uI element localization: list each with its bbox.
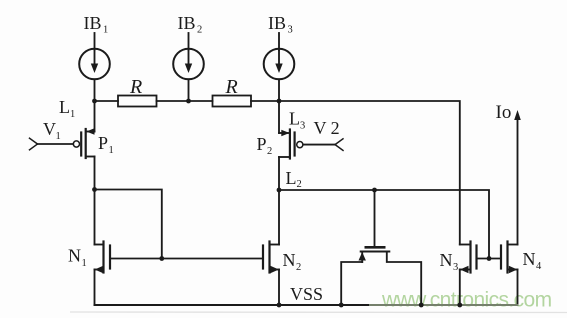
svg-text:R: R [225, 76, 238, 98]
svg-text:1: 1 [109, 145, 114, 156]
output arrow Io [514, 110, 521, 120]
transistor P1 [73, 128, 94, 158]
transistor N1 [95, 242, 111, 274]
wire N4 source to VSS rail [517, 270, 519, 306]
node N2 source on rail [277, 303, 282, 308]
svg-text:1: 1 [70, 109, 75, 120]
svg-text:V: V [43, 119, 56, 139]
label IB3 [268, 13, 293, 36]
wire N1 source to VSS rail [94, 270, 96, 306]
svg-text:Io: Io [496, 102, 512, 123]
label L1 [59, 97, 75, 120]
wire N4 drain to Io [517, 119, 519, 245]
label VSS [290, 284, 323, 304]
svg-text:IB: IB [84, 13, 102, 33]
transistor P2 [279, 130, 303, 159]
label L2 [286, 168, 302, 190]
wire N1 N2 common gate line [110, 258, 263, 260]
node N3 N4 gate junction [487, 256, 492, 261]
svg-text:3: 3 [288, 25, 293, 36]
svg-text:IB: IB [178, 13, 196, 33]
wire R2 to L3 [251, 100, 279, 102]
wire VSS rail right (under watermark) [370, 304, 518, 306]
wire N2 source to VSS rail [278, 270, 280, 306]
svg-text:L: L [289, 109, 300, 129]
input terminal V1 [30, 138, 74, 150]
node M5 right lead on rail [419, 303, 424, 308]
label R1 value [129, 76, 142, 98]
label N2 [283, 250, 302, 273]
label N1 [68, 246, 87, 270]
label IB2 [178, 13, 203, 36]
svg-text:VSS: VSS [290, 284, 323, 304]
wire L3 to N3 drain (top right run) [279, 101, 460, 245]
svg-text:1: 1 [82, 258, 87, 269]
wire N3 source to VSS rail [459, 270, 461, 306]
transistor M5 (unlabeled, rotated) [341, 190, 421, 305]
svg-text:1: 1 [103, 25, 108, 36]
svg-text:4: 4 [536, 261, 542, 272]
node L1 [92, 99, 97, 104]
wire P1 drain down to N1 drain [94, 157, 96, 245]
label Io [496, 102, 512, 123]
wire R1 to mid node [157, 100, 213, 102]
wire N3 N4 common gate line [477, 258, 502, 260]
svg-text:N: N [68, 246, 81, 266]
svg-text:3: 3 [300, 121, 305, 132]
label R2 value [225, 76, 238, 98]
wire gate branch to N1/N2 gate line [95, 190, 162, 259]
label V2 [314, 118, 340, 138]
current source IB2 [173, 33, 204, 101]
label N4 [523, 249, 543, 272]
svg-text:P: P [257, 134, 267, 154]
label IB1 [84, 13, 109, 36]
node gate line junction [159, 256, 164, 261]
scan artifact line [70, 311, 567, 314]
svg-text:2: 2 [197, 25, 202, 36]
label L3 [289, 109, 305, 132]
transistor N2 [263, 242, 279, 274]
svg-text:L: L [59, 97, 70, 117]
svg-text:V 2: V 2 [314, 118, 340, 138]
wire VSS rail [95, 304, 371, 306]
wire P2 drain down through L2 to N2 drain [278, 157, 280, 245]
label N3 [440, 250, 459, 273]
label V1 [43, 119, 61, 142]
transistor N4 [501, 242, 518, 274]
svg-text:IB: IB [268, 13, 286, 33]
label P2 [257, 134, 273, 157]
svg-text:2: 2 [296, 262, 301, 273]
svg-text:2: 2 [267, 146, 272, 157]
node L3 [277, 99, 282, 104]
svg-text:L: L [286, 168, 297, 188]
resistor R2 [213, 96, 252, 107]
node L2 [277, 188, 282, 193]
label P1 [98, 133, 114, 156]
node mid junction [186, 99, 191, 104]
current source IB3 [264, 33, 295, 101]
node M5 left lead on rail [339, 303, 344, 308]
resistor R1 [118, 96, 157, 107]
svg-text:N: N [283, 250, 296, 270]
node N3 source on rail [457, 303, 462, 308]
wire L1 down to P1 source [94, 101, 96, 132]
node P1 drain / gate branch [92, 187, 97, 192]
current source IB1 [79, 33, 110, 101]
svg-text:3: 3 [453, 262, 458, 273]
svg-text:N: N [523, 249, 536, 269]
svg-text:N: N [440, 250, 453, 270]
input terminal V2 [303, 139, 343, 151]
wire L2 horizontal run to N3/N4 gates [279, 190, 489, 259]
svg-text:P: P [98, 133, 108, 153]
svg-text:1: 1 [56, 131, 61, 142]
wire IB3 node down to P2 source [278, 101, 280, 133]
svg-text:www.cntronics.com: www.cntronics.com [381, 289, 552, 312]
svg-text:2: 2 [297, 179, 302, 190]
svg-text:R: R [129, 76, 142, 98]
wire L1 to R1 [95, 100, 119, 102]
node L2 to M5 gate [372, 188, 377, 193]
transistor N3 [460, 242, 477, 274]
